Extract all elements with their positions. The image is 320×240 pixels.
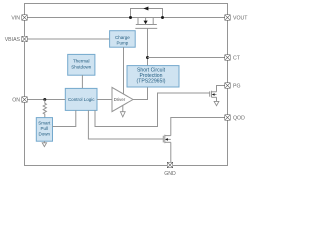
wire smart pull down to control logic	[53, 110, 76, 126]
svg-text:Control Logic: Control Logic	[68, 97, 95, 102]
ground arrow under smart pull down	[43, 141, 45, 143]
block control logic	[65, 88, 97, 110]
svg-text:VBIAS: VBIAS	[5, 37, 21, 43]
ground arrow under driver	[122, 105, 124, 112]
svg-text:ON: ON	[12, 98, 20, 104]
wire CT line	[148, 57, 228, 59]
wire PG gate route from control logic	[95, 93, 210, 127]
transistor M2 PG open-drain FET	[210, 91, 217, 98]
svg-text:Charge: Charge	[115, 35, 130, 40]
svg-text:Driver: Driver	[114, 97, 126, 102]
wire control logic to driver	[97, 99, 112, 101]
wire PG pin to M2 drain	[217, 86, 228, 92]
pin PG	[225, 83, 241, 90]
svg-text:PG: PG	[233, 84, 241, 90]
wire gate line from M1 down to CT node and SCP box	[147, 28, 149, 65]
wire charge pump to driver	[123, 47, 125, 94]
outer device boundary box	[25, 4, 228, 166]
wire ON to control logic	[25, 99, 66, 101]
node rail-loop left	[129, 16, 132, 19]
pin VBIAS	[5, 36, 27, 43]
op-amp driver	[112, 87, 133, 111]
svg-text:Shutdown: Shutdown	[71, 65, 92, 70]
wire M2 source down	[216, 97, 218, 101]
pin QOD	[225, 115, 245, 122]
pin VIN	[11, 15, 27, 22]
wire M3 source to GND rail	[170, 142, 172, 165]
wire body-diode loop over pass FET	[131, 9, 163, 18]
svg-text:VOUT: VOUT	[233, 16, 248, 22]
svg-text:VIN: VIN	[11, 16, 20, 22]
pin ON	[12, 97, 27, 104]
block short circuit protection	[127, 66, 179, 87]
transistor M1 pass FET	[135, 18, 157, 29]
pin VOUT	[225, 15, 248, 22]
block smart pull down	[36, 118, 52, 142]
svg-text:Thermal: Thermal	[73, 59, 90, 64]
svg-text:Pull: Pull	[41, 126, 49, 131]
wire SCP box bottom to driver output	[147, 87, 149, 100]
svg-text:QOD: QOD	[233, 116, 245, 122]
node CT junction	[146, 56, 149, 59]
arrow body-diode direction (points left)	[143, 7, 148, 11]
wire thermal shutdown to control logic	[81, 75, 83, 88]
wire VIN-VOUT main rail	[25, 17, 228, 19]
resistor pull-down on ON pin	[43, 100, 46, 118]
svg-text:CT: CT	[233, 56, 241, 62]
svg-text:GND: GND	[164, 171, 176, 177]
wire driver output to gate line	[133, 99, 148, 101]
block thermal shutdown	[68, 54, 95, 75]
svg-text:Down: Down	[39, 132, 51, 137]
svg-text:(TPS22965I): (TPS22965I)	[137, 79, 166, 85]
wire QOD pin to M3 drain	[171, 118, 228, 136]
svg-text:Smart: Smart	[38, 121, 51, 126]
transistor M3 QOD FET	[163, 135, 171, 144]
wire VBIAS to charge pump	[25, 38, 110, 40]
pin CT	[225, 55, 241, 62]
ground arrow under M2	[214, 101, 219, 105]
block charge pump	[110, 31, 136, 48]
node ON-resistor junction	[43, 98, 46, 101]
wire QOD gate route from control logic	[88, 110, 163, 139]
pin GND	[164, 162, 176, 177]
svg-text:Pump: Pump	[117, 41, 129, 46]
node rail-loop right	[161, 16, 164, 19]
